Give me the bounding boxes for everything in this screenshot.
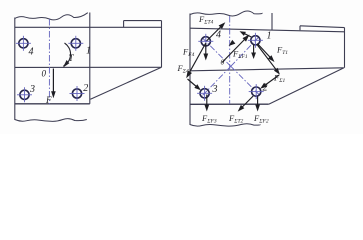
svg-text:3: 3 bbox=[29, 84, 35, 95]
svg-text:1: 1 bbox=[267, 31, 272, 42]
svg-text:4: 4 bbox=[29, 47, 34, 58]
svg-text:4: 4 bbox=[216, 30, 221, 41]
svg-text:1: 1 bbox=[86, 46, 91, 57]
svg-text:0: 0 bbox=[221, 58, 225, 67]
svg-text:0: 0 bbox=[42, 69, 47, 79]
svg-text:2: 2 bbox=[83, 83, 88, 94]
svg-text:3: 3 bbox=[212, 84, 218, 95]
svg-text:F: F bbox=[45, 95, 52, 105]
svg-text:2: 2 bbox=[263, 83, 268, 94]
